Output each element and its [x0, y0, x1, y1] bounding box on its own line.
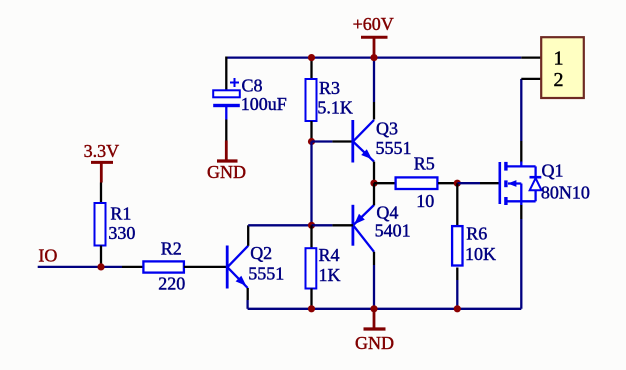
junction rail / R6: [454, 305, 461, 312]
svg-text:5401: 5401: [375, 221, 411, 241]
svg-text:80N10: 80N10: [541, 182, 590, 202]
resistor R4: [306, 248, 317, 288]
svg-text:Q3: Q3: [376, 119, 398, 139]
svg-text:R3: R3: [319, 78, 340, 98]
wire Q3 base pin: [332, 140, 352, 142]
wire R2 left pin: [122, 266, 143, 268]
power +60V: [353, 14, 394, 57]
wire Q4 base pin: [332, 224, 353, 226]
wire bottom rail: [248, 308, 522, 310]
wire connector pin 2 stub: [521, 78, 541, 80]
svg-text:5551: 5551: [376, 138, 412, 158]
svg-text:2: 2: [554, 69, 564, 91]
junction column / Q4 base / R4: [308, 222, 315, 229]
wire Q4 collector to rail: [373, 265, 375, 309]
wire Q4 emitter pin: [373, 183, 375, 205]
wire Q2 collector to column: [248, 224, 311, 226]
svg-text:10K: 10K: [465, 244, 496, 264]
connector J1: [541, 37, 584, 98]
junction IO / R1: [97, 263, 104, 270]
wire Q3 collector pin: [373, 102, 375, 120]
junction R5 / R6 / gate: [454, 180, 461, 187]
wire drain net: [520, 79, 522, 141]
transistor Q2: [227, 246, 248, 289]
resistor R2: [143, 261, 184, 272]
svg-text:Q2: Q2: [250, 243, 272, 263]
svg-text:330: 330: [108, 223, 135, 243]
svg-text:1: 1: [554, 48, 564, 70]
svg-text:Q1: Q1: [542, 160, 564, 180]
wire Q1 gate pin: [480, 182, 499, 184]
junction rail / GND: [370, 305, 377, 312]
wire R3 top pin: [310, 58, 312, 80]
wire R4 top pin: [310, 225, 312, 248]
svg-text:R1: R1: [110, 204, 131, 224]
junction emitters / R5: [370, 180, 377, 187]
resistor R1: [95, 203, 106, 246]
svg-text:R5: R5: [414, 153, 435, 173]
svg-text:Q4: Q4: [376, 202, 398, 222]
svg-text:5.1K: 5.1K: [317, 97, 353, 117]
wire IO: [38, 266, 122, 268]
wire Q1 drain pin: [520, 141, 522, 163]
wire Q2 base: [184, 266, 226, 268]
svg-text:GND: GND: [207, 162, 246, 182]
wire Q1 source pin: [520, 205, 522, 220]
wire R3 bottom to R4 top: [310, 142, 312, 226]
junction R3 bottom / Q3 base: [308, 138, 315, 145]
svg-text:100uF: 100uF: [241, 94, 287, 114]
svg-text:R6: R6: [466, 223, 487, 243]
svg-text:R2: R2: [161, 239, 182, 259]
svg-text:C8: C8: [242, 75, 263, 95]
wire Q2 collector pin: [247, 225, 249, 246]
svg-text:1K: 1K: [319, 265, 341, 285]
wire connector pin 1 stub: [521, 56, 541, 58]
wire Q2 emitter pin: [247, 288, 249, 300]
wire R3 bottom pin: [310, 121, 312, 142]
transistor Q4: [353, 205, 374, 252]
wire R6 bottom pin: [456, 268, 458, 281]
svg-text:GND: GND: [355, 333, 394, 353]
wire R5 left pin: [374, 182, 395, 184]
wire Q4 collector pin: [373, 252, 375, 265]
capacitor C8: [213, 78, 240, 120]
svg-text:5551: 5551: [248, 264, 284, 284]
wire +60V to Q3 collector: [373, 58, 375, 102]
svg-text:220: 220: [158, 274, 185, 294]
svg-text:+60V: +60V: [353, 14, 394, 34]
transistor Q3: [353, 120, 374, 163]
resistor R3: [306, 79, 317, 121]
wire C8 top pin: [225, 57, 227, 91]
wire 3.3V to R1: [100, 183, 102, 204]
resistor R5: [396, 177, 438, 189]
svg-text:3.3V: 3.3V: [84, 141, 120, 161]
svg-text:10: 10: [416, 191, 434, 211]
wire Q4 base net: [312, 224, 333, 226]
junction rail / R4: [308, 305, 315, 312]
wire R4 bottom pin: [310, 289, 312, 309]
mosfet Q1: [500, 162, 542, 206]
wire Q3 base: [312, 140, 333, 142]
wire R6 bottom to rail: [456, 280, 458, 309]
ground GND (bottom): [355, 309, 394, 353]
wire source riser: [520, 219, 522, 309]
wire Q3 emitter pin: [373, 162, 375, 184]
wire R6 top: [456, 183, 458, 225]
junction top rail / R3: [308, 54, 315, 61]
wire gate net: [457, 182, 480, 184]
resistor R6: [452, 226, 462, 265]
wire R5 right pin: [438, 182, 457, 184]
power 3.3V: [84, 141, 120, 182]
svg-text:IO: IO: [38, 245, 57, 265]
ground GND (C8): [207, 141, 246, 183]
wire C8 to GND: [225, 120, 227, 141]
wire R1 bottom pin: [100, 246, 102, 267]
svg-text:R4: R4: [319, 245, 340, 265]
junction top rail / +60V: [370, 54, 377, 61]
wire top +60V rail: [226, 56, 521, 58]
wire Q2 emitter to rail: [246, 300, 248, 309]
